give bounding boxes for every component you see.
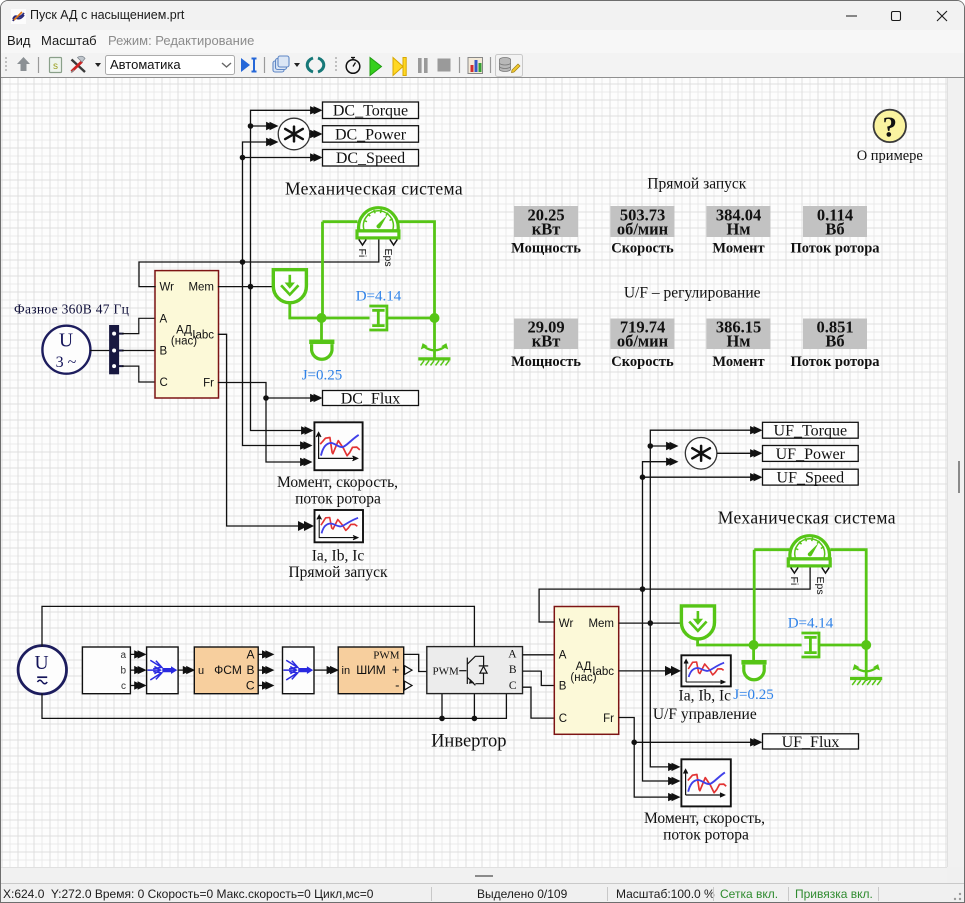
FSM port labels u A B C [198,647,255,692]
svg-text:B: B [559,681,567,693]
svg-text:DC_Torque: DC_Torque [333,103,408,120]
svg-text:поток ротора: поток ротора [295,491,381,508]
motor block AD(nas) 2 [554,607,618,735]
wire net Fr2: to UF_Flux and scope4 in3 [619,718,754,798]
junction Fr1 [263,395,269,401]
svg-text:Механическая система: Механическая система [285,179,463,199]
svg-text:J=0.25: J=0.25 [302,368,343,384]
svg-text:Момент, скорость,: Момент, скорость, [644,810,765,827]
display speed DC [611,206,675,237]
svg-text:s: s [53,61,58,72]
shield1 arrow glyph [281,275,298,295]
display speed UF [611,319,675,350]
motor block AD(nas) 1 [155,271,219,398]
svg-text:DC_Power: DC_Power [335,126,407,143]
wires abc to merge1 [130,654,138,685]
pause icon [418,58,422,73]
wire U~ bottom bus to inverter [42,694,506,719]
arrow to mult1 in2 [266,138,278,146]
display torque DC [707,206,771,237]
merge mux 1 [147,647,179,694]
svg-text:Ia, Ib, Ic: Ia, Ib, Ic [312,548,365,565]
svg-text:поток ротора: поток ротора [663,827,749,844]
database icon [496,55,523,77]
PWM plus output stub [405,666,413,675]
gauge2 pin labels [788,577,826,595]
svg-text:(нас): (нас) [171,335,197,347]
svg-text:Прямой запуск: Прямой запуск [647,176,747,193]
combobox [106,56,235,75]
svg-text:PWM: PWM [433,665,460,677]
scope4 blue curve [688,772,725,791]
scope3 Ia Ib Ic UF [681,655,730,686]
junction speed2 at UF_Speed [640,474,646,480]
svg-text:Прямой запуск: Прямой запуск [288,564,388,581]
junction Mem2 at mult2 [648,443,654,449]
junction Mem2 at block [648,620,654,626]
UF_Flux box [763,734,859,749]
demux pin stubs [119,334,123,367]
svg-text:UF_Torque: UF_Torque [774,423,848,440]
svg-text:B: B [509,664,517,676]
wire inverter A to motor2 A [523,654,555,656]
brackets icon [307,58,313,72]
svg-text:Eps: Eps [814,577,826,595]
svg-text:DC_Speed: DC_Speed [336,150,405,167]
junction bus 2 [472,716,478,722]
scope2 red curve [321,518,356,531]
svg-text:?: ? [883,112,898,144]
PWM minus output stub [405,681,413,690]
damper D 2 [801,633,819,657]
svg-text:Нм: Нм [726,220,750,239]
gauge sensor 1 [357,208,399,238]
svg-text:об/мин: об/мин [617,220,669,239]
svg-text:Механическая система: Механическая система [718,507,896,527]
svg-text:Скорость: Скорость [611,354,674,370]
scope4 torque/speed/flux UF [681,759,730,806]
wire net Fr1: to DC_Flux and scope1 in3 [219,383,315,463]
scope3 red curve [688,662,723,675]
FSM block [194,647,258,694]
run-to icon blue [241,58,250,72]
DC_Flux box [323,391,419,406]
svg-text:A: A [246,647,254,661]
display torque UF [707,319,771,350]
damper D 1 [369,306,387,330]
svg-text:Ia, Ib, Ic: Ia, Ib, Ic [679,688,732,705]
DC_Power box [323,126,419,143]
gauge sensor 2 [788,536,830,566]
multiplier 1 [278,118,310,150]
rotational ground 2 [850,664,882,685]
svg-text:Нм: Нм [726,332,750,351]
layers icon [273,56,289,72]
svg-text:Fi: Fi [356,249,368,258]
merge2 blue arrows glyph [283,660,297,680]
svg-text:C: C [246,679,255,693]
svg-text:U/F управление: U/F управление [653,706,757,723]
generator abc pin labels [120,650,126,692]
svg-text:D=4.14: D=4.14 [788,615,834,631]
gauge1 pin Fi [359,240,366,246]
svg-text:C: C [559,713,567,725]
junction Fr2 [631,740,637,746]
svg-text:in: in [342,665,351,677]
gauge1 pin Eps [390,240,397,246]
svg-text:Скорость: Скорость [611,241,674,257]
svg-text:ФСМ: ФСМ [214,663,242,677]
wire mult1 out to DC_Power [310,133,314,135]
UF_Torque box [763,422,859,438]
scope2 Ia Ib Ic [315,510,364,542]
svg-text:A: A [508,649,517,661]
junction Mem1 at mult [248,123,254,129]
demux pin dots [112,332,116,336]
svg-text:D=4.14: D=4.14 [356,288,402,304]
wires FSM to merge2 [258,654,266,685]
wire J1 stem [320,318,323,340]
UF_Power box [763,446,859,462]
svg-text:Eps: Eps [382,249,394,267]
svg-text:Автоматика: Автоматика [110,57,181,72]
svg-text:Mem: Mem [188,282,214,294]
gauge2 pin Eps [822,568,829,574]
torque source shield 1 [273,270,306,303]
wire net speed1: Fi to Wr, DC_Speed, mult in2, scope1 in2 [139,142,379,446]
junction mech2 left [749,640,759,650]
svg-text:u: u [198,665,204,677]
wire net Mem1: Mem to shield, up to DC_Torque and mult in1, down to scope1 in1 [219,110,315,430]
merge1 blue arrows glyph [148,660,162,680]
svg-text:ШИМ: ШИМ [356,663,386,677]
inverter port labels A B C [508,649,517,693]
svg-text:кВт: кВт [532,332,561,351]
svg-text:C: C [160,377,168,389]
junction mech1 right [430,313,440,323]
junction bus 1 [439,716,445,722]
svg-text:DC_Flux: DC_Flux [341,390,401,407]
script icon [50,58,62,73]
junction mech2 right [861,640,871,650]
arrow to DC_Torque [310,106,322,114]
scope1 torque/speed/flux [314,422,362,470]
svg-text:b: b [120,666,126,677]
scope1 blue curve [321,435,358,454]
svg-text:C: C [509,680,517,692]
svg-text:Вб: Вб [825,220,844,239]
svg-text:a: a [120,650,126,661]
svg-text:A: A [160,313,168,325]
shield2 arrow glyph [689,611,706,631]
svg-text:Mem: Mem [588,618,614,630]
junction speed1 at DC_Speed [240,155,246,161]
PWM block port labels in PWM + - [342,649,400,692]
wire inverter C to motor2 C [523,687,555,718]
scope1 red curve [321,438,359,456]
svg-text:J=0.25: J=0.25 [733,687,774,703]
rotational ground 1 [418,343,450,365]
wire merge1 to FSM [178,669,187,671]
multiplier 2 [685,438,717,470]
wire U~ top to inverter DC+ [42,606,474,646]
scope4 red curve [688,775,726,793]
PWM (ShIM) block [338,647,404,694]
scope1 axes [317,433,358,461]
svg-text:Fi: Fi [788,577,800,586]
wire demux C to motor1 C [123,366,155,382]
display flux DC [803,206,867,237]
DC_Torque box [323,102,419,119]
display flux UF [803,319,867,350]
svg-text:Fr: Fr [603,713,614,725]
svg-text:Wr: Wr [559,618,574,630]
wire merge2 to PWM block [314,669,330,671]
svg-text:Мощность: Мощность [511,354,581,370]
svg-text:(нас): (нас) [570,672,596,684]
stopwatch icon [346,60,360,74]
svg-text:Вб: Вб [825,332,844,351]
motor2 port labels Wr A B C Mem Iabc Fr [559,618,614,725]
wire net Iabc1 to scope2 [219,334,300,526]
stop icon [438,59,451,72]
svg-text:+: + [392,662,400,677]
inertia J 1 [309,340,334,360]
wire mult2 out to UF_Power [717,452,754,454]
wire net Mem2: to shield2, up to UF_Torque and mult2 in1, down to scope4 in1 [619,430,755,767]
arrow to mult1 in1 [266,122,278,130]
help icon O primere [874,110,906,142]
scope2 axes [317,515,358,539]
svg-text:B: B [246,663,254,677]
app icon [11,9,26,24]
svg-text:Момент: Момент [712,354,764,370]
junction speed2 main [640,586,646,592]
svg-text:Поток ротора: Поток ротора [790,354,880,370]
svg-text:UF_Power: UF_Power [776,446,846,463]
chart icon [468,58,483,74]
window buttons [836,1,964,30]
scope3 axes [684,660,725,684]
svg-text:c: c [121,681,126,692]
arrow to scope1 in2 [300,441,312,449]
wire shaft right mech2 [830,550,866,681]
svg-text:UF_Speed: UF_Speed [777,470,845,487]
tools icon [72,60,86,73]
wire shaft left mech1 [290,222,435,318]
source U~ [18,646,66,694]
svg-text:-: - [395,678,399,693]
wire source to demux [90,350,109,352]
svg-text:UF_Flux: UF_Flux [782,734,840,751]
inverter block [427,647,523,694]
svg-text:3 ~: 3 ~ [56,354,77,371]
svg-text:U: U [59,331,73,352]
wire PWM to inverter [404,654,427,671]
torque source shield 2 [681,606,714,639]
junction Mem1 at block [248,284,254,290]
step icon [393,58,403,76]
svg-text:U/F – регулирование: U/F – регулирование [624,285,761,302]
UF_Speed box [763,469,859,485]
arrow to DC_Speed [310,153,322,161]
inertia J 2 [741,660,766,680]
generator abc block [82,647,130,694]
svg-text:Мощность: Мощность [511,241,581,257]
svg-text:О примере: О примере [857,148,923,164]
scope2 blue curve [322,518,357,532]
display power UF [514,319,578,350]
up arrow icon [17,57,30,71]
DC_Speed box [323,150,419,167]
svg-text:Момент: Момент [712,241,764,257]
svg-text:Момент, скорость,: Момент, скорость, [277,474,398,491]
wire J2 stem [752,645,755,660]
svg-text:Поток ротора: Поток ротора [790,241,880,257]
svg-text:B: B [160,345,168,357]
svg-text:Фазное 360В 47 Гц: Фазное 360В 47 Гц [14,301,129,316]
svg-text:Fr: Fr [203,378,214,390]
arrow to scope1 in1 [301,426,313,434]
svg-text:Инвертор: Инвертор [431,732,506,752]
scope3 blue curve [689,663,724,677]
gauge2 pin Fi [791,568,798,574]
wire net speed2: Fi2 to Wr2, UF_Speed, mult2 in2, scope4 in2 [539,462,810,781]
source U 3~ [42,326,90,374]
svg-text:Wr: Wr [160,282,175,294]
motor1 port labels Wr A B C Mem Iabc Fr [160,282,215,390]
wire shaft left mech2 [698,550,867,645]
svg-text:кВт: кВт [532,220,561,239]
svg-text:A: A [559,650,567,662]
gauge1 pin labels [356,249,394,267]
demux bar [110,326,119,374]
wire inverter B to motor2 B [523,671,555,685]
inverter IGBT symbol [459,656,488,685]
play icon [370,58,382,76]
junction speed1 main [240,259,246,265]
svg-text:об/мин: об/мин [617,332,669,351]
wire Iabc2 to scope3 [619,670,674,672]
wire shaft right mech1 [398,222,434,358]
display power DC [514,206,578,237]
wire demux A to motor1 A [123,318,155,333]
merge mux 2 [283,647,315,694]
wire demux B to motor1 B [123,350,155,352]
scope4 axes [684,770,725,798]
svg-text:PWM: PWM [373,649,400,661]
junction mech1 left [317,313,327,323]
svg-text:U: U [34,653,48,674]
